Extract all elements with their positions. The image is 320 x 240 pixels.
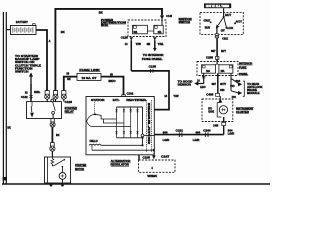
svg-text:687: 687 [212, 82, 217, 86]
fuse 15A [219, 65, 233, 73]
svg-text:C405: C405 [213, 123, 219, 127]
svg-text:ALTERNATOR: ALTERNATOR [111, 159, 131, 163]
svg-text:C128: C128 [65, 100, 73, 104]
svg-text:C142: C142 [21, 95, 28, 99]
svg-text:BK: BK [67, 77, 71, 81]
terminal stud 2 [53, 91, 58, 100]
connector C142 [30, 95, 33, 98]
svg-text:FUSE PANEL: FUSE PANEL [142, 57, 163, 61]
motor armature [59, 173, 66, 180]
svg-text:FUSE LINK: FUSE LINK [79, 68, 99, 72]
svg-text:LB/O: LB/O [200, 85, 206, 89]
motor grounds [50, 184, 53, 187]
svg-text:FIELD: FIELD [90, 139, 98, 143]
svg-text:50A: 50A [134, 31, 138, 34]
svg-text:R/BL: R/BL [34, 90, 41, 94]
svg-text:LG/R: LG/R [193, 138, 200, 142]
svg-text:604: 604 [236, 79, 241, 83]
svg-text:BK/O: BK/O [109, 79, 116, 83]
svg-text:15A: 15A [221, 70, 225, 73]
svg-text:SENSOR: SENSOR [178, 83, 191, 87]
svg-text:Y/W: Y/W [136, 42, 142, 46]
wire 32 R/BL [30, 84, 32, 102]
svg-text:C405: C405 [206, 93, 214, 97]
svg-text:C261: C261 [222, 37, 228, 41]
wire Y/W run to alternator [131, 71, 169, 110]
stator winding [94, 102, 96, 113]
svg-text:OFF: OFF [221, 28, 225, 32]
ignition output wire [216, 28, 218, 34]
relay output stud [50, 119, 55, 128]
svg-text:MOTOR: MOTOR [75, 167, 84, 171]
svg-text:BATTERY: BATTERY [16, 20, 28, 24]
fuse B 40A [154, 25, 163, 34]
wires to anti-lock module [231, 73, 238, 93]
svg-text:687: 687 [211, 49, 216, 53]
fuse 10A [202, 65, 216, 73]
svg-text:BATT: BATT [225, 13, 231, 17]
svg-text:BK: BK [61, 30, 65, 34]
svg-text:C147: C147 [161, 154, 170, 158]
svg-text:A: A [49, 40, 51, 43]
svg-text:C102: C102 [127, 92, 134, 96]
svg-text:4M: 4M [147, 42, 151, 46]
ground line [92, 149, 154, 151]
svg-text:40A: 40A [158, 31, 162, 34]
svg-text:SWITCH: SWITCH [15, 70, 29, 74]
svg-text:GY/Y: GY/Y [220, 82, 226, 86]
svg-text:Y/BL: Y/BL [158, 42, 165, 46]
svg-text:B/Y: B/Y [221, 49, 226, 53]
svg-text:ACCY: ACCY [236, 20, 242, 24]
connector on Y/W wire [149, 69, 151, 73]
svg-text:REGULATOR: REGULATOR [111, 163, 129, 167]
wire studs to relay [46, 99, 48, 101]
svg-text:C126: C126 [121, 36, 129, 40]
svg-text:RECTIFIER: RECTIFIER [126, 98, 146, 102]
ignition switch S1 [200, 12, 243, 34]
alternator / regulator [86, 97, 154, 155]
svg-text:10A: 10A [206, 70, 210, 73]
motor resistor [51, 157, 54, 165]
svg-text:W/BK: W/BK [147, 174, 157, 178]
svg-text:C138: C138 [149, 64, 157, 68]
charge indicator lamp [218, 99, 222, 103]
svg-text:START: START [204, 18, 211, 22]
IFP internal feed [216, 62, 218, 64]
instrument cluster [202, 99, 233, 122]
ground double line left [2, 12, 4, 184]
connector C102 [122, 95, 126, 98]
wire 4 Y/BL to interior fuse panel [154, 40, 156, 48]
interior fuse panel [197, 62, 238, 76]
svg-text:REGULATOR: REGULATOR [147, 103, 150, 145]
terminal stud 3 [61, 91, 66, 100]
power distribution box [101, 19, 126, 27]
svg-text:16 GA. GY: 16 GA. GY [82, 77, 97, 80]
note to starter switch [15, 54, 41, 74]
svg-text:LG/R: LG/R [228, 131, 235, 135]
wire 687 GY/Y to cluster [217, 73, 219, 93]
ground module W/BK [139, 160, 176, 172]
arrow to starter switch [30, 76, 32, 84]
svg-text:RELAY: RELAY [65, 109, 74, 113]
fuse A 50A [133, 25, 148, 34]
feed arrow into PDB [160, 15, 164, 19]
svg-text:C146: C146 [166, 14, 172, 18]
svg-text:BATT+: BATT+ [113, 98, 120, 102]
wire main bus top [55, 9, 162, 91]
wire relay to starter [51, 127, 53, 146]
svg-text:LOCK: LOCK [227, 26, 233, 30]
svg-text:STATOR: STATOR [91, 98, 105, 102]
svg-text:TO INTERIOR: TO INTERIOR [143, 53, 164, 57]
relay coil [31, 102, 32, 112]
ground bus bottom [2, 183, 270, 185]
svg-text:904: 904 [163, 131, 168, 135]
svg-text:Y/W: Y/W [173, 94, 179, 98]
svg-text:HOT AT ALL TIMES: HOT AT ALL TIMES [206, 5, 230, 8]
svg-text:BK: BK [7, 125, 11, 129]
regulator dashed boundary [146, 100, 148, 153]
cluster output wire [223, 117, 225, 135]
wire LB/O to hood sensor [203, 73, 205, 83]
starter motor M1 [45, 157, 71, 183]
motor switch blade [54, 160, 65, 166]
wire 14 Y/W [130, 40, 132, 71]
alternator ground exits [138, 155, 140, 160]
svg-text:LG/R: LG/R [163, 138, 170, 142]
rectifier bridge [117, 106, 143, 108]
hot at all times header [204, 3, 231, 8]
svg-text:C240: C240 [203, 128, 211, 132]
svg-text:904: 904 [196, 131, 201, 135]
fuse link wire [64, 77, 125, 95]
svg-text:CHGE: CHGE [208, 110, 214, 113]
relay switch [51, 99, 54, 102]
battery output column [142, 107, 144, 145]
svg-text:P/O: P/O [230, 84, 234, 88]
svg-text:BK: BK [99, 10, 103, 14]
terminal stud 1 [45, 91, 50, 100]
svg-text:C258: C258 [206, 56, 214, 60]
wire battery to ground line [6, 29, 10, 31]
starter input stud [50, 143, 55, 152]
svg-text:BK: BK [56, 133, 60, 137]
svg-text:RUN: RUN [205, 26, 210, 30]
svg-text:640: 640 [220, 88, 225, 92]
svg-text:C101: C101 [176, 128, 184, 132]
svg-text:STARTER: STARTER [75, 163, 86, 167]
starter relay K1 [27, 102, 62, 119]
svg-text:MODULE: MODULE [247, 92, 260, 95]
svg-text:C105: C105 [143, 156, 151, 160]
wire battery positive cable [36, 30, 47, 91]
wire 904 LG/R to alternator [154, 134, 223, 136]
